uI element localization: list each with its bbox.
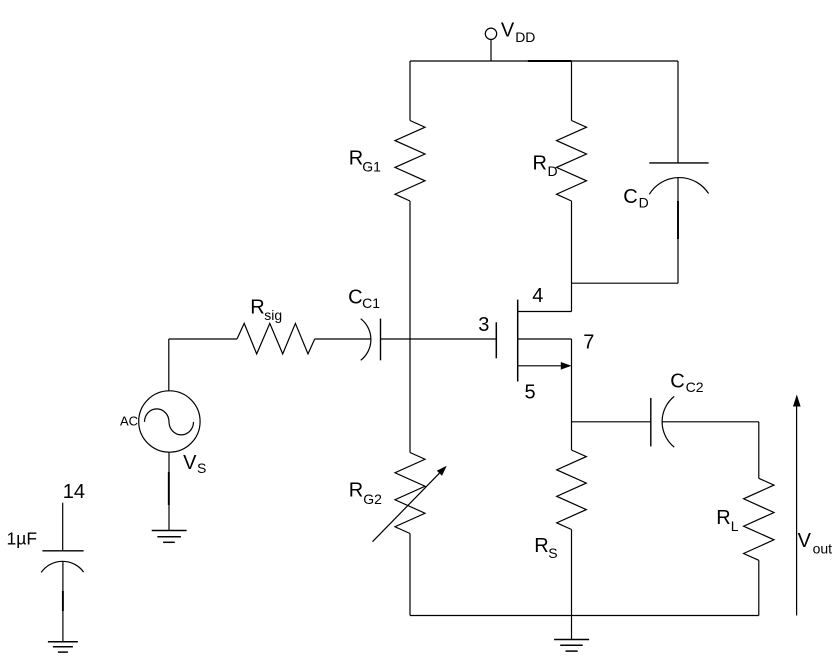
wire gate horizontal [381,338,497,340]
svg-text:C2: C2 [686,379,704,395]
wire VDD stem [490,40,492,62]
svg-text:sig: sig [264,307,282,323]
wire top rail VDD [410,60,678,62]
mosfet Q1 body horizontal [518,338,572,340]
wire CD bottom lead dark overlap [677,201,679,239]
ground VS line2 [157,536,181,538]
svg-text:out: out [813,541,833,557]
label RD [533,153,558,180]
wire source to Rsig [169,338,237,340]
mosfet Q1 gate bar [495,322,497,358]
source VS circle [139,391,200,452]
wire RG2 arrow line [373,472,441,542]
svg-text:C1: C1 [362,295,380,311]
wire 1uF bottom lead [62,561,64,641]
svg-text:G2: G2 [363,491,382,507]
resistor RS [557,450,587,530]
svg-text:C: C [348,287,362,309]
wire RG1 top lead [409,61,411,121]
svg-text:C: C [670,370,684,392]
wire 1uF bottom lead dark overlap [62,591,64,611]
resistor RG1 [395,121,425,202]
svg-text:R: R [533,153,547,175]
label RG1 [349,147,381,174]
svg-text:D: D [548,163,558,179]
wire C14 top lead [62,503,64,551]
wire CD bottom lead [677,177,679,283]
wire RG2 arrow head [437,466,447,476]
svg-text:R: R [534,535,548,557]
ground RS line2 [560,644,583,646]
capacitor CC1 curved plate [361,319,371,361]
wire VS bottom lead dark overlap [168,472,170,505]
node VDD terminal circle [485,28,496,39]
label RG2 [349,480,382,507]
capacitor CD top plate [649,162,708,164]
svg-text:1µF: 1µF [7,529,38,549]
capacitor CC2 straight plate [650,398,652,447]
wire VS bottom lead [168,452,170,530]
wire drain to CD horizontal [572,282,679,284]
svg-text:L: L [731,518,739,534]
resistor RG2 (variable) [395,453,425,534]
svg-text:7: 7 [583,331,594,353]
ground VS line1 [152,530,187,532]
svg-text:V: V [501,20,515,42]
ground RS line1 [554,639,589,641]
wire Vout arrow line [796,406,798,616]
label CC1 [348,287,380,311]
label CD [623,186,648,211]
ground 1uF line1 [48,641,78,643]
capacitor 1uF top plate [42,550,83,552]
resistor Rsig [237,323,315,354]
wire RG2 bottom lead [409,534,411,616]
resistor RD [557,121,587,202]
capacitor 1uF curved plate [41,561,83,572]
label RS [534,535,557,561]
ground 1uF line2 [53,646,73,648]
svg-text:R: R [250,296,264,318]
mosfet Q1 drain horizontal [518,311,572,313]
svg-text:3: 3 [478,314,489,336]
svg-text:R: R [349,147,363,169]
ground RS line3 [566,650,578,652]
mosfet Q1 source arrow line [518,365,561,367]
wire top rail dark overlap segment [528,60,572,62]
wire CD top lead [677,61,679,163]
wire CC2 left [572,421,651,423]
ground 1uF line3 [58,651,68,653]
svg-text:5: 5 [525,381,536,403]
wire source vertical [571,339,573,450]
capacitor CD curved plate [649,178,708,195]
svg-text:4: 4 [532,285,543,307]
wire RD top lead [571,61,573,121]
wire RS bottom to ground [571,530,573,640]
svg-text:R: R [349,480,363,502]
label CC2 [670,370,704,395]
svg-text:S: S [197,460,206,476]
svg-text:R: R [716,507,730,529]
wire Rsig to CC1 [315,338,371,340]
label Vout [798,530,833,557]
wire Vout arrow head [793,395,801,407]
capacitor CC1 straight plate [380,319,382,361]
svg-text:S: S [548,545,557,561]
svg-text:V: V [798,530,812,552]
svg-text:14: 14 [63,481,85,503]
ground VS line3 [163,541,175,543]
wire VS top lead [168,339,170,391]
mosfet Q1 source arrow head [561,362,572,370]
wire bottom rail [410,615,759,617]
wire RG1 bottom to gate node down to RG2 [409,201,411,453]
mosfet Q1 channel bar [517,300,519,382]
svg-text:C: C [623,186,637,208]
source VS sine wave [145,409,194,435]
label RL [716,507,739,534]
wire RD bottom / drain vertical [571,201,573,312]
svg-text:V: V [183,452,197,474]
wire RL top lead [758,422,760,479]
svg-text:D: D [639,195,649,211]
wire RL bottom lead [758,560,760,615]
svg-text:G1: G1 [362,158,381,174]
label VDD [501,20,536,45]
label Rsig [250,296,282,323]
svg-text:DD: DD [515,29,535,45]
wire CC2 right [662,421,759,423]
capacitor CC2 curved plate [662,396,674,447]
label VS [183,452,206,476]
svg-text:AC: AC [120,413,138,428]
resistor RL [744,478,774,560]
